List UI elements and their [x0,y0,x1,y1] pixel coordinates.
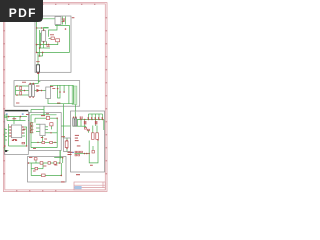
wire W20 [37,72,39,83]
wire W62 [27,120,30,122]
wire W112 [95,124,97,126]
component (resistor/diode) R12 [50,142,53,144]
red parts of bottom middle [28,157,64,177]
wire W26 [15,86,17,95]
wire W84 [53,141,58,143]
component (resistor/diode) R19 [42,174,46,177]
junction J17 [24,90,26,92]
blue net label [22,113,24,114]
value label text [33,147,36,150]
wire W13 [40,34,43,36]
title block outline [74,182,105,190]
wire W90 [28,162,59,164]
value label text [9,136,11,137]
component (resistor/diode) R26 [81,151,83,153]
value label text [68,154,72,155]
wire W39 [31,109,44,111]
wire W86 [61,125,70,127]
red text labels outside boxes [26,17,80,182]
value label text [68,152,73,153]
component (resistor/diode) R24 [75,151,77,153]
wire W67 [50,117,58,119]
IC U2 [46,87,51,99]
svg-text:PDF: PDF [9,6,37,20]
wire W60 [8,140,10,147]
junction J29 [20,116,22,118]
junction J4 [43,41,44,42]
winding/filter element T3 [29,85,32,97]
value label text [61,181,65,182]
value label text [47,45,50,48]
wire W30 [58,85,60,98]
winding/filter element T2 [36,65,39,72]
value label text [22,81,26,84]
wire W57 [5,132,7,134]
wire W55 [5,128,9,151]
wire W91 [31,163,61,175]
net symbol [4,115,7,118]
wire W3 [37,26,70,53]
pin mark below resistor [37,73,39,74]
wire W70 [31,122,33,124]
junction J11 [40,44,41,45]
junction J21 [33,97,34,98]
value label text [52,87,55,90]
PDF badge [0,0,43,22]
junction J30 [4,145,6,147]
value label text [54,164,57,167]
value label text [62,20,65,23]
wire W22 [49,38,51,40]
wire W1 [61,17,63,25]
frame border inner [5,4,106,190]
wire W58 [5,136,7,138]
value label text [22,130,24,131]
junction J25 [63,91,65,93]
wire W77 [45,132,57,134]
component (resistor/diode) R28 [78,154,80,156]
wire W6 [36,19,38,53]
wire W25 [16,94,29,96]
component (resistor/diode) R27 [75,154,77,156]
junction J6 [39,47,41,49]
wire W117 [89,139,98,163]
value label text [75,139,79,142]
wire W113 [85,126,87,127]
junction J2 [65,28,67,30]
value label text [26,113,29,116]
value label text [9,130,11,131]
component (resistor/diode) R25 [78,151,80,153]
wire W69 [56,118,58,147]
component (resistor/diode) R3 [20,87,22,90]
module box [71,111,105,172]
junction J1 [63,20,64,21]
wire W19 [37,52,39,64]
wire W104 [103,120,105,131]
wire W103 [102,114,104,120]
component (resistor/diode) R8 [30,130,32,133]
component (resistor/diode) R16 [48,162,50,165]
junction J33 [50,132,51,133]
value label text [44,138,47,141]
net polygon fill [72,86,77,105]
component (resistor/diode) R17 [54,162,56,165]
module box: top (power input) [35,16,71,72]
title block line [74,187,105,189]
value label text [62,18,66,21]
wire W97 [73,119,104,121]
wire W114 [88,130,90,133]
wire W61 [9,145,27,147]
value label text [75,134,79,137]
pin mark P1 [79,116,82,119]
wire W92 [59,151,61,164]
wire W32 [69,85,73,103]
junction J54 [97,139,98,140]
value label text [46,112,49,115]
junction J28 [8,116,10,118]
wire W83 [45,141,50,143]
wire W7 [37,18,55,20]
wire W52 [22,129,25,131]
wire W73 [31,132,33,134]
wire W9 [40,30,43,56]
pin mark P10 [95,121,96,124]
red parts of right module [73,116,103,165]
junction J42 [80,119,81,120]
blue net label [6,113,8,114]
value label text [9,133,11,134]
wire W85 [31,147,57,149]
component (resistor/diode) R20 [84,128,86,130]
component (resistor/diode) R6 [30,123,32,126]
wire W27 [34,90,46,92]
value label text [77,145,81,148]
wire W23 [16,85,29,87]
wire W89 [66,148,68,152]
pin mark P7 [101,117,104,119]
wire W105 [74,111,76,118]
wire W94 [31,168,43,170]
wire W40 [30,110,32,113]
junction J12 [46,44,47,45]
value label text [90,164,93,167]
wire W34 [50,85,52,87]
component (resistor/diode) R13 [65,141,68,148]
wire W5 [44,28,49,31]
wire W56 [5,129,7,131]
wire W116 [96,126,98,133]
wire W11 [41,32,44,34]
value label text [76,174,80,175]
wire W49 [9,132,12,134]
wire W93 [35,160,37,163]
wire W99 [88,114,90,120]
junction J46 [95,119,96,120]
wire W16 [43,41,45,48]
value label text [12,140,14,141]
junction J22 [41,90,43,92]
component (resistor/diode) R4 [20,92,22,95]
wire W119 [75,153,90,155]
wire W36 [63,104,65,107]
component (resistor/diode) R10 [50,123,53,126]
value label text [62,135,66,138]
wire W48 [9,129,12,131]
frame border outer [3,3,107,192]
value label text [15,140,17,141]
junction J14 [41,27,42,28]
wire W51 [22,127,27,146]
wire W82 [31,141,42,143]
wire W47 [9,126,12,128]
title block line [102,182,104,188]
wire W107 [77,120,79,127]
red parts of left module [4,116,27,147]
wire W8 [37,27,49,29]
junction J47 [98,119,99,120]
wire W41 [6,116,28,118]
wire W96 [54,158,63,164]
wire W88 [66,138,68,141]
wire W45 [7,120,26,122]
wire W37 [63,106,65,138]
component (resistor/diode) R7 [30,127,32,130]
wire W74 [51,126,53,129]
junction J32 [57,118,58,119]
wire W38 [43,106,45,115]
bus line (dark) [5,109,29,111]
winding/filter element T5 [73,118,74,126]
pin mark P6 [97,117,100,119]
component (resistor/diode) R21 [87,129,89,131]
component (resistor/diode) R29 [92,150,94,153]
value label text [22,133,24,134]
junction J23 [57,88,59,90]
wire W76 [45,129,48,131]
wire W110 [84,124,86,127]
value label text [12,117,16,120]
red parts of mid lower [30,113,58,149]
title block [74,182,105,190]
wire W50 [9,135,12,137]
component (resistor/diode) R11 [42,142,45,144]
junction J48 [102,119,103,120]
junction J16 [16,94,18,96]
wire W44 [19,117,21,121]
wire W14 [37,42,58,45]
value label text [9,127,11,128]
pin mark P11 [96,121,97,124]
value label text [43,165,46,168]
junction J26 [30,83,31,84]
value label text [57,102,60,105]
wire W17 [42,52,44,56]
red parts of top module [36,19,66,74]
junction J34 [37,142,38,143]
value label text [23,128,26,131]
junction J43 [84,119,85,120]
wire W29 [51,84,74,86]
pin mark P3 [87,117,90,119]
wire W65 [43,113,45,115]
junction J9 [39,55,41,57]
winding/filter element T4 [32,85,35,97]
junction J24 [59,91,61,93]
schematic frame [3,3,107,192]
pin mark P2 [81,116,84,119]
wire W42 [6,117,8,121]
wire W101 [95,114,97,120]
wire W54 [22,135,25,137]
junction J39 [59,162,61,164]
wire W46 [8,124,10,140]
wire W95 [42,163,44,169]
junction J15 [16,85,18,87]
junction J8 [42,52,44,54]
value label text [75,137,78,140]
component (resistor/diode) R5 [22,142,25,144]
value label text [36,85,39,88]
junction J13 [36,27,37,28]
red parts of wide module [16,82,65,104]
wire W111 [95,120,97,122]
component (resistor/diode) R18 [35,167,38,169]
wire W33 [48,99,69,104]
pin mark P4 [90,117,93,119]
module box [64,138,71,152]
junction J44 [88,119,89,120]
wire W21 [38,81,40,83]
ground [5,150,7,152]
wire W106 [73,125,86,127]
module box [35,16,71,72]
IC U1 [55,17,61,25]
module box [28,157,67,183]
value label text [33,170,36,173]
module box [14,81,80,107]
component (resistor/diode) R2 [56,39,60,42]
junction J52 [86,153,88,155]
wire W115 [92,126,94,133]
wire W12 [46,41,48,44]
wire W87 [59,151,61,159]
title block highlight cell [74,186,81,189]
junction J10 [48,44,50,46]
blue net label [72,152,74,153]
module box: wide (transformer stage) [14,81,80,107]
wire W68 [34,118,36,122]
junction J51 [84,153,86,155]
wire W2 [64,17,66,25]
component (resistor/diode) R9 [46,117,49,120]
junction J36 [66,140,67,141]
wire W59 [5,139,7,141]
junction J40 [61,175,63,177]
wire W72 [31,128,33,130]
junction J18 [29,83,30,84]
winding/filter element T6 [75,118,76,126]
junction J27 [33,83,34,84]
wire W10 [40,33,42,48]
wire W24 [16,90,29,92]
value label text [41,114,45,117]
junction J19 [33,83,34,84]
junction J31 [26,145,27,146]
junction J37 [66,148,67,149]
wire W28 [30,83,38,85]
wire W118 [92,146,94,150]
wire W63 [31,114,57,116]
junction J41 [62,157,63,158]
wire W71 [31,125,33,127]
value label text [13,138,16,141]
wire W66 [35,117,46,119]
junction J53 [89,153,90,154]
value label text [50,85,53,88]
module box [5,112,29,155]
wire W31 [63,85,65,92]
wire W102 [98,114,100,120]
junction J5 [36,44,38,46]
module box [29,113,61,151]
wire W53 [22,132,25,134]
wire W15 [40,47,50,49]
junction J3 [43,29,44,30]
wire W98 [89,113,103,115]
wire W18 [38,55,40,57]
wire W100 [91,114,93,120]
junction J38 [28,162,30,164]
winding/filter element T1 [42,31,46,42]
module box: left MCU [5,110,29,154]
wire W108 [80,120,82,127]
pin mark P9 [85,121,86,124]
component (resistor/diode) R1 [51,37,54,40]
IC U4 [40,124,45,135]
junction J50 [75,117,76,118]
wire W79 [36,127,40,129]
wire W75 [45,126,48,128]
pin mark P5 [94,117,97,119]
junction J20 [29,97,30,98]
component (resistor/diode) R14 [34,158,37,160]
value label text [41,136,43,139]
frame index ticks [3,3,107,191]
component (resistor/diode) R15 [40,162,43,165]
wire W43 [13,117,15,124]
title block line [74,184,105,186]
wire W78 [36,123,40,125]
junction J49 [73,117,74,118]
wire W35 [75,105,77,112]
wire W81 [42,136,44,142]
component (resistor/diode) R22 [92,133,95,140]
value label text [22,127,24,128]
value label text [36,60,39,63]
IC U3 [11,125,21,138]
value label text [50,33,54,36]
junction J7 [36,52,38,54]
wire W4 [49,25,57,37]
wire W64 [30,115,32,148]
component (resistor/diode) R23 [96,133,99,140]
junction J45 [91,119,92,120]
pin mark P8 [84,121,85,124]
diode D1 [37,89,40,93]
wire W109 [84,120,86,122]
